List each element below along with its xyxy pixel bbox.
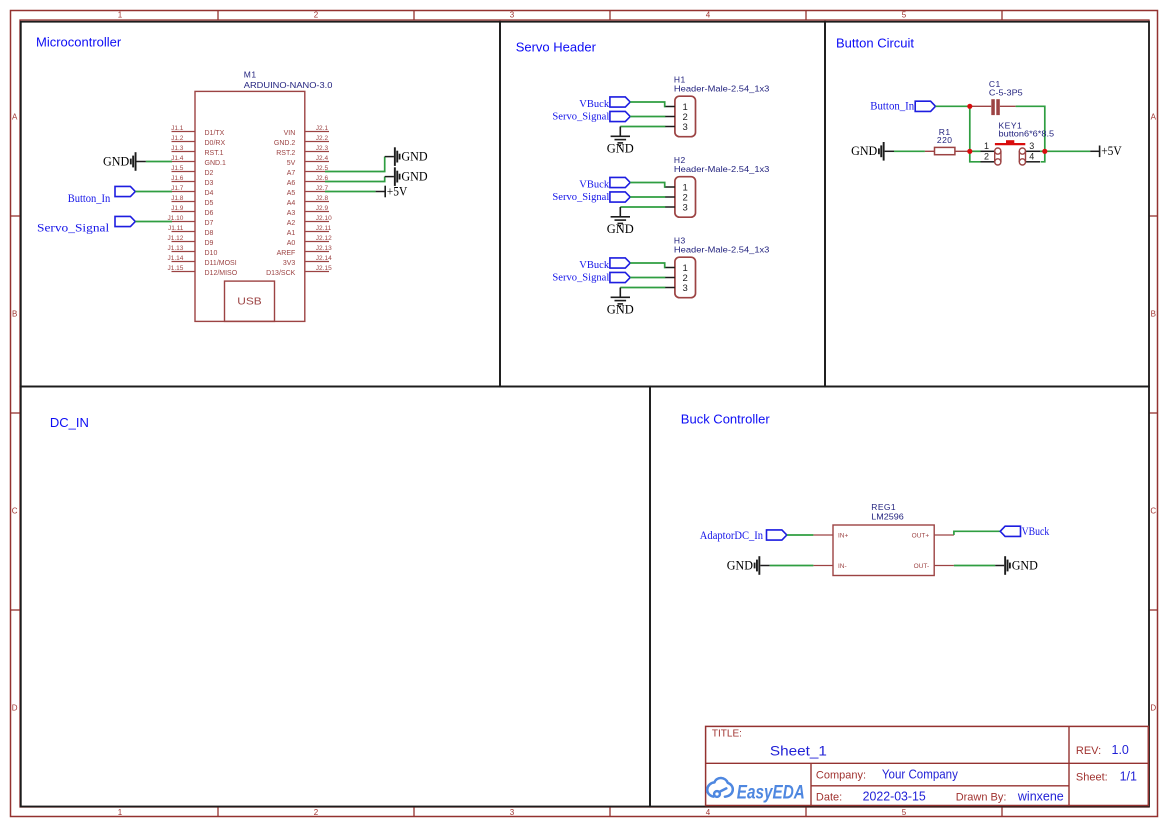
svg-text:1: 1 — [118, 11, 123, 20]
svg-text:Buck Controller: Buck Controller — [681, 411, 771, 426]
svg-text:C: C — [12, 506, 18, 515]
svg-text:Date:: Date: — [816, 791, 842, 803]
connector H3 pin stubs — [665, 268, 675, 288]
power flag GND at M1 J1.4 — [103, 152, 137, 171]
svg-text:C-5-3P5: C-5-3P5 — [989, 87, 1023, 97]
svg-text:3: 3 — [510, 11, 515, 20]
net flag VBuck at H3 — [610, 258, 630, 268]
svg-text:J1.6: J1.6 — [171, 175, 184, 182]
svg-text:GND: GND — [401, 150, 427, 164]
M1 left pin numbers — [167, 125, 183, 272]
wire node B to +5V — [1045, 150, 1090, 152]
svg-text:D: D — [1150, 703, 1156, 712]
svg-text:VBuck: VBuck — [1022, 524, 1050, 538]
svg-text:Servo_Signal: Servo_Signal — [552, 273, 609, 284]
section box Button Circuit — [825, 22, 1149, 387]
svg-text:3V3: 3V3 — [283, 260, 296, 267]
wire Button_In to node A — [936, 105, 970, 107]
wire AdaptorDC_In to REG1 IN+ — [787, 534, 814, 536]
svg-text:D11/MOSI: D11/MOSI — [205, 260, 237, 267]
svg-text:2: 2 — [984, 152, 989, 162]
svg-text:4: 4 — [1029, 152, 1034, 162]
svg-text:J1.8: J1.8 — [171, 195, 184, 202]
svg-text:A0: A0 — [287, 240, 296, 247]
wire GND lead at REG1 IN- — [760, 565, 769, 567]
M1 right pin numbers — [316, 125, 332, 272]
svg-text:VIN: VIN — [284, 130, 296, 137]
svg-text:3: 3 — [1029, 141, 1034, 151]
svg-text:LM2596: LM2596 — [871, 512, 904, 522]
net flag Button_In at M1 — [115, 186, 135, 196]
power flag GND at REG1 OUT- — [1004, 556, 1038, 575]
svg-text:3: 3 — [510, 808, 515, 817]
svg-text:VBuck: VBuck — [579, 180, 609, 191]
svg-text:Sheet:: Sheet: — [1076, 772, 1108, 784]
junction node B — [1042, 149, 1047, 154]
svg-text:J2.12: J2.12 — [316, 235, 332, 242]
svg-text:D0/RX: D0/RX — [205, 140, 226, 147]
svg-text:J1.5: J1.5 — [171, 165, 184, 172]
svg-text:J1.4: J1.4 — [171, 155, 184, 162]
svg-text:OUT-: OUT- — [914, 563, 930, 570]
svg-text:A3: A3 — [287, 210, 296, 217]
svg-text:D13/SCK: D13/SCK — [266, 270, 296, 277]
power flag GND at J2.6 lead — [385, 176, 394, 178]
title block row divider — [706, 762, 1149, 764]
net flag Servo_Signal at H1 — [610, 111, 630, 121]
svg-text:5: 5 — [902, 11, 907, 20]
svg-text:D8: D8 — [205, 230, 214, 237]
svg-text:A4: A4 — [287, 200, 296, 207]
wire Servo_Signal to H3 pin 2 — [630, 277, 665, 279]
ground stub at H2 — [619, 207, 621, 217]
svg-text:Header-Male-2.54_1x3: Header-Male-2.54_1x3 — [674, 245, 770, 255]
svg-text:D4: D4 — [205, 190, 214, 197]
svg-text:GND: GND — [607, 302, 634, 316]
svg-text:winxene: winxene — [1017, 789, 1064, 803]
svg-text:GND: GND — [727, 558, 753, 572]
svg-text:D7: D7 — [205, 220, 214, 227]
ground stub at H1 — [619, 127, 621, 137]
svg-text:J1.3: J1.3 — [171, 145, 184, 152]
svg-text:A: A — [1151, 112, 1157, 121]
svg-text:GND.2: GND.2 — [274, 140, 296, 147]
svg-text:B: B — [1151, 309, 1156, 318]
svg-text:D5: D5 — [205, 200, 214, 207]
svg-text:D3: D3 — [205, 180, 214, 187]
svg-text:1.0: 1.0 — [1112, 743, 1129, 757]
junction node C — [967, 149, 972, 154]
svg-text:Servo_Signal: Servo_Signal — [552, 192, 609, 203]
title block logo divider — [810, 763, 812, 805]
wire Servo_Signal to J1.10 — [135, 221, 172, 223]
connector H2 pin numbers — [683, 183, 688, 214]
power flag GND at REG1 OUT- lead — [995, 565, 1004, 567]
svg-text:REG1: REG1 — [871, 502, 896, 512]
svg-text:J2.1: J2.1 — [316, 125, 329, 132]
svg-text:AdaptorDC_In: AdaptorDC_In — [700, 528, 763, 542]
capacitor C1 plates — [991, 99, 1000, 115]
power flag GND at REG1 IN- — [727, 556, 761, 575]
wire Servo_Signal to H1 pin 2 — [630, 116, 665, 118]
svg-text:D12/MISO: D12/MISO — [205, 270, 238, 277]
svg-text:A7: A7 — [287, 170, 296, 177]
net flag Servo_Signal at M1 — [115, 216, 135, 226]
svg-text:AREF: AREF — [277, 250, 296, 257]
svg-text:A5: A5 — [287, 190, 296, 197]
svg-text:D2: D2 — [205, 170, 214, 177]
EasyEDA logo cloud — [707, 778, 733, 797]
svg-text:REV:: REV: — [1076, 745, 1101, 757]
svg-text:D9: D9 — [205, 240, 214, 247]
frame row labels left — [12, 112, 18, 712]
wire H2 pin 3 to GND — [620, 206, 665, 208]
svg-text:Company:: Company: — [816, 770, 866, 782]
wire VBuck to H1 pin 1 — [630, 102, 665, 107]
power flag +5V at J2.7 — [384, 184, 407, 198]
svg-text:1: 1 — [984, 141, 989, 151]
net flag Servo_Signal at H3 — [610, 272, 630, 282]
net flag VBuck at buck — [1000, 526, 1020, 536]
wire H1 pin 3 to GND — [620, 126, 665, 128]
svg-text:GND: GND — [607, 222, 634, 236]
resistor R1 body — [935, 147, 955, 154]
wire GND to REG1 IN- — [770, 565, 814, 567]
net flag Button_In at button circuit — [915, 101, 935, 111]
svg-text:Button_In: Button_In — [68, 191, 111, 205]
svg-text:GND: GND — [401, 170, 427, 184]
svg-text:A2: A2 — [287, 220, 296, 227]
frame row ticks — [11, 216, 1158, 610]
svg-text:J2.13: J2.13 — [316, 245, 332, 252]
svg-text:J2.15: J2.15 — [316, 265, 332, 272]
svg-text:IN+: IN+ — [838, 533, 849, 540]
svg-text:GND: GND — [851, 144, 877, 158]
frame column ticks — [218, 11, 1002, 817]
svg-text:B: B — [12, 309, 17, 318]
wire KEY1 pin 3 to node B — [1040, 150, 1045, 152]
svg-text:OUT+: OUT+ — [912, 533, 930, 540]
svg-text:GND: GND — [1012, 558, 1038, 572]
wire node C to KEY1 pin 1 — [970, 150, 981, 152]
wire C1 to node B right vertical — [1016, 106, 1045, 162]
net flag VBuck at H2 — [610, 177, 630, 187]
connector H3 pin numbers — [683, 263, 688, 294]
svg-text:J1.11: J1.11 — [168, 225, 184, 232]
wire J2.5 to GND — [325, 157, 385, 172]
svg-text:D6: D6 — [205, 210, 214, 217]
connector H1 pin stubs — [665, 107, 675, 127]
svg-text:J1.15: J1.15 — [167, 265, 183, 272]
wire VBuck to H2 pin 1 — [630, 183, 665, 188]
svg-text:J2.4: J2.4 — [316, 155, 329, 162]
connector H2 body — [675, 177, 696, 218]
svg-text:A: A — [12, 112, 18, 121]
pushbutton KEY1 contacts — [995, 148, 1026, 165]
title block border — [706, 726, 1149, 805]
regulator REG1 pin names — [838, 533, 929, 571]
svg-text:J1.7: J1.7 — [171, 185, 184, 192]
connector H3 body — [675, 257, 696, 298]
svg-text:VBuck: VBuck — [579, 99, 609, 110]
svg-text:3: 3 — [683, 122, 688, 133]
svg-text:GND.1: GND.1 — [205, 160, 227, 167]
net flag Servo_Signal at H2 — [610, 192, 630, 202]
svg-text:USB: USB — [237, 297, 262, 308]
junction node A — [967, 104, 972, 109]
frame row labels right — [1150, 112, 1156, 712]
svg-text:DC_IN: DC_IN — [50, 415, 89, 430]
regulator REG1 body — [833, 525, 934, 576]
svg-text:D10: D10 — [205, 250, 218, 257]
svg-text:J1.12: J1.12 — [167, 235, 183, 242]
svg-text:J2.9: J2.9 — [316, 205, 329, 212]
M1 right pin names — [266, 130, 296, 277]
svg-text:J2.11: J2.11 — [316, 225, 332, 232]
svg-text:RST.2: RST.2 — [276, 150, 295, 157]
svg-text:4: 4 — [706, 808, 711, 817]
power flag GND at J2.5 — [394, 147, 428, 166]
section box DC_IN — [21, 387, 650, 807]
title block rev column divider — [1068, 726, 1070, 805]
wire J2.7 to +5V — [325, 191, 376, 193]
power flag GND at button circuit — [851, 142, 885, 161]
wire J2.6 to GND — [325, 177, 385, 182]
svg-text:J1.1: J1.1 — [171, 125, 184, 132]
svg-text:Button Circuit: Button Circuit — [836, 35, 914, 50]
svg-text:Sheet_1: Sheet_1 — [770, 742, 827, 758]
title block date row divider — [811, 785, 1069, 787]
svg-text:Button_In: Button_In — [870, 99, 914, 113]
M1 right pins J2.1-J2.15 — [305, 132, 329, 272]
svg-text:+5V: +5V — [387, 184, 408, 198]
svg-text:IN-: IN- — [838, 563, 847, 570]
wire VBuck to H3 pin 1 — [630, 263, 665, 268]
svg-text:M1: M1 — [244, 69, 257, 79]
svg-text:J2.2: J2.2 — [316, 135, 329, 142]
wire GND to R1 — [894, 150, 925, 152]
connector H1 pin numbers — [683, 102, 688, 133]
net flag VBuck at H1 — [610, 97, 630, 107]
net flag AdaptorDC_In — [767, 530, 787, 540]
M1 left pins J1.1-J1.15 — [172, 132, 196, 272]
connector H2 pin stubs — [665, 187, 675, 207]
frame column labels bottom — [118, 808, 907, 817]
M1 left pin names — [205, 130, 238, 277]
wire REG1 OUT+ to VBuck — [954, 531, 1000, 535]
svg-text:J2.14: J2.14 — [316, 255, 332, 262]
wire node A to node C left vertical — [970, 106, 981, 162]
svg-text:Servo_Signal: Servo_Signal — [37, 220, 110, 234]
svg-text:GND: GND — [607, 141, 634, 155]
resistor R1 right lead — [955, 150, 970, 152]
wire H3 pin 3 to GND — [620, 287, 665, 289]
power flag GND at J2.5 lead — [385, 156, 394, 158]
resistor R1 left lead — [925, 150, 935, 152]
svg-text:J2.3: J2.3 — [316, 145, 329, 152]
svg-text:C: C — [1150, 506, 1156, 515]
section box Buck Controller — [650, 387, 1149, 807]
microcontroller M1 body — [195, 91, 305, 321]
power flag GND at J2.6 — [394, 167, 428, 186]
power flag +5V at button circuit — [1099, 144, 1122, 158]
ground at H2 — [607, 217, 634, 236]
svg-text:Your Company: Your Company — [882, 768, 959, 782]
svg-text:VBuck: VBuck — [579, 260, 609, 271]
svg-text:J1.13: J1.13 — [167, 245, 183, 252]
regulator REG1 pins — [813, 535, 954, 566]
svg-text:J2.8: J2.8 — [316, 195, 329, 202]
wire GND lead at button circuit — [885, 150, 894, 152]
wire REG1 OUT- to GND — [954, 565, 995, 567]
svg-text:J1.14: J1.14 — [167, 255, 183, 262]
svg-text:J1.9: J1.9 — [171, 205, 184, 212]
power flag +5V at J2.7 lead — [376, 191, 385, 193]
svg-text:J1.2: J1.2 — [171, 135, 184, 142]
svg-text:3: 3 — [683, 203, 688, 214]
pushbutton KEY1 pin numbers — [984, 141, 1034, 162]
svg-text:A6: A6 — [287, 180, 296, 187]
wire GND to J1.4 lead — [137, 161, 146, 163]
section box Servo Header — [500, 22, 825, 387]
wire GND to J1.4 — [146, 161, 172, 163]
connector H1 body — [675, 96, 696, 137]
ground at H1 — [607, 136, 634, 155]
svg-text:A1: A1 — [287, 230, 296, 237]
section box Microcontroller — [21, 22, 500, 387]
svg-text:5: 5 — [902, 808, 907, 817]
svg-text:4: 4 — [706, 11, 711, 20]
svg-text:5V: 5V — [287, 160, 296, 167]
svg-text:D1/TX: D1/TX — [205, 130, 225, 137]
microcontroller M1 USB box — [225, 281, 275, 321]
svg-text:1: 1 — [118, 808, 123, 817]
pushbutton KEY1 actuator — [995, 140, 1025, 144]
capacitor C1 left lead — [970, 105, 991, 107]
ground at H3 — [607, 297, 634, 316]
capacitor C1 right lead — [1000, 105, 1016, 107]
svg-text:RST.1: RST.1 — [205, 150, 224, 157]
svg-text:button6*6*8.5: button6*6*8.5 — [999, 129, 1055, 139]
svg-text:ARDUINO-NANO-3.0: ARDUINO-NANO-3.0 — [244, 80, 333, 90]
svg-text:J2.10: J2.10 — [316, 215, 332, 222]
svg-text:Servo Header: Servo Header — [516, 40, 597, 55]
svg-text:GND: GND — [103, 154, 129, 168]
power flag +5V at button circuit lead — [1090, 150, 1099, 152]
svg-text:Servo_Signal: Servo_Signal — [552, 112, 609, 123]
svg-text:TITLE:: TITLE: — [712, 729, 742, 740]
svg-text:1/1: 1/1 — [1120, 770, 1137, 784]
svg-text:D: D — [12, 703, 18, 712]
svg-text:2: 2 — [314, 11, 319, 20]
svg-text:EasyEDA: EasyEDA — [737, 782, 805, 803]
svg-text:2022-03-15: 2022-03-15 — [863, 789, 926, 803]
wire Button_In to J1.7 — [135, 191, 172, 193]
svg-text:+5V: +5V — [1101, 144, 1122, 158]
svg-text:Header-Male-2.54_1x3: Header-Male-2.54_1x3 — [674, 164, 770, 174]
ground stub at H3 — [619, 288, 621, 298]
pushbutton KEY1 pin stubs — [981, 151, 1041, 162]
svg-text:2: 2 — [314, 808, 319, 817]
wire Servo_Signal to H2 pin 2 — [630, 196, 665, 198]
svg-text:Header-Male-2.54_1x3: Header-Male-2.54_1x3 — [674, 84, 770, 94]
frame column labels top — [118, 11, 907, 20]
svg-text:Microcontroller: Microcontroller — [36, 34, 122, 49]
svg-text:Drawn By:: Drawn By: — [956, 791, 1007, 803]
svg-text:3: 3 — [683, 283, 688, 294]
svg-text:220: 220 — [937, 135, 953, 145]
